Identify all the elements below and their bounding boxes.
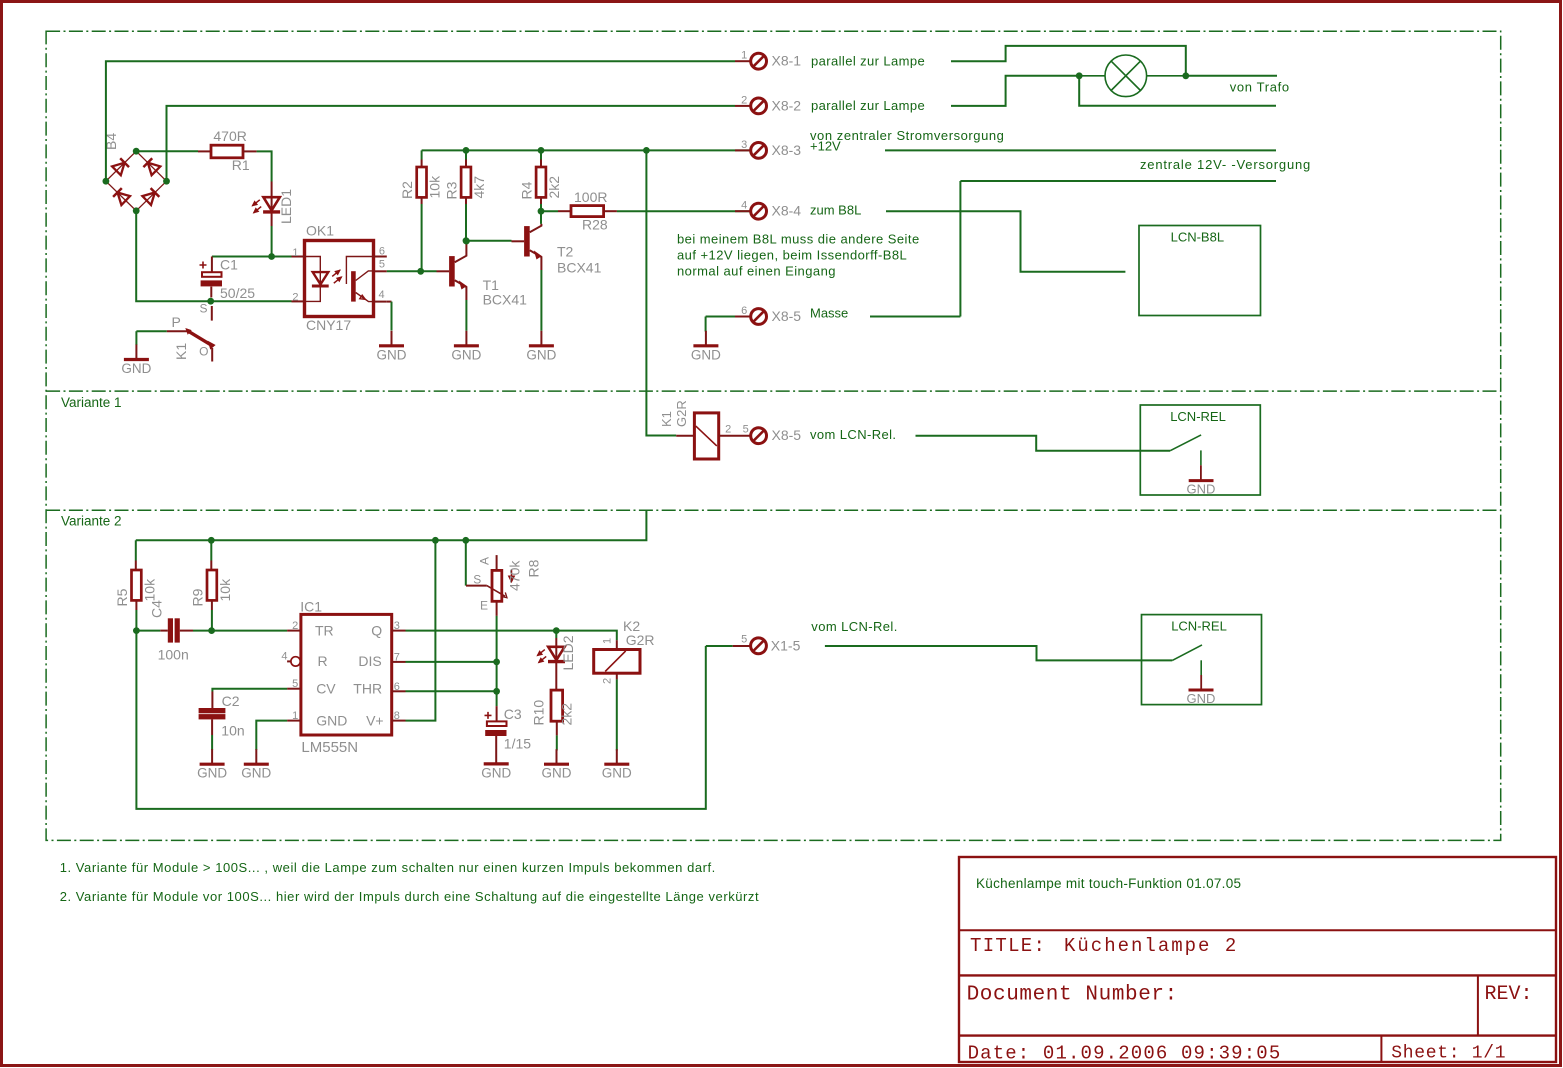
wire X8-1 to lamp right node: [951, 46, 1186, 76]
svg-text:2. Variante für Module vor 100: 2. Variante für Module vor 100S... hier …: [60, 889, 759, 904]
svg-text:LCN-B8L: LCN-B8L: [1171, 230, 1224, 245]
svg-text:GND: GND: [377, 347, 407, 362]
svg-text:LCN-REL: LCN-REL: [1170, 409, 1226, 424]
svg-text:2: 2: [292, 292, 298, 304]
resistor R1 470R: [198, 128, 257, 173]
wire T2 emitter to GND: [540, 270, 542, 331]
junction T1 collector node: [463, 238, 470, 245]
wire R4 top stub: [540, 150, 542, 159]
svg-text:R3: R3: [444, 181, 460, 199]
svg-text:6: 6: [394, 681, 400, 693]
svg-text:zentrale 12V- -Versorgung: zentrale 12V- -Versorgung: [1140, 157, 1311, 172]
svg-text:GND: GND: [542, 766, 572, 781]
svg-text:T2: T2: [557, 244, 574, 260]
svg-text:Q: Q: [371, 623, 382, 639]
wire bridge top to R1: [136, 150, 198, 152]
wire IC1 GND pin to ground: [256, 721, 287, 750]
wire node to R28: [541, 210, 558, 212]
title block frame: [959, 857, 1556, 1062]
svg-text:parallel zur Lampe: parallel zur Lampe: [811, 98, 925, 113]
wire rail to pot wiper: [465, 540, 467, 585]
svg-text:parallel zur Lampe: parallel zur Lampe: [811, 54, 925, 69]
wire K2 pin2 to GND: [616, 679, 618, 750]
pin pad X8-1: [735, 60, 751, 62]
svg-text:X8-5: X8-5: [772, 427, 802, 443]
box LCN-REL (Variante 1): [1140, 405, 1260, 497]
pin pad X1-5: [733, 645, 751, 647]
svg-text:GND: GND: [526, 347, 556, 362]
junction LED2 top: [553, 627, 560, 634]
junction R3 top: [463, 147, 470, 154]
svg-text:C4: C4: [149, 600, 165, 618]
svg-text:4k7: 4k7: [471, 176, 487, 199]
svg-text:5: 5: [741, 634, 747, 646]
svg-text:4: 4: [379, 289, 385, 301]
wire T1 emitter to GND: [465, 300, 467, 331]
junction R5/C4/bottom rail: [133, 627, 140, 634]
wire node to OK1 pin1: [272, 256, 292, 258]
svg-text:Document Number:: Document Number:: [967, 983, 1178, 1006]
pad X8-4 (connector): [751, 203, 767, 219]
ground GND (X8-5): [691, 331, 721, 363]
wire R5 bottom to node: [135, 610, 137, 631]
wire net X8-2 from bridge right corner to pad X8-2: [167, 106, 736, 181]
wire net +12V rail to pad X8-3: [422, 149, 751, 151]
pad X1-5 (connector): [751, 638, 767, 654]
svg-text:G2R: G2R: [626, 632, 655, 648]
svg-text:P: P: [172, 314, 181, 330]
pin R3 bottom: [465, 197, 467, 204]
junction bridge right (AC2): [163, 178, 170, 185]
svg-text:vom LCN-Rel.: vom LCN-Rel.: [811, 619, 897, 634]
svg-text:10k: 10k: [141, 578, 157, 602]
wire IC1 Q to LED2/relay K2: [406, 631, 617, 641]
wire LED1 cathode down to node: [271, 226, 273, 257]
IC U IC1 LM555N: [281, 599, 405, 757]
wire R3 bottom to T1 collector node: [465, 204, 467, 241]
junction DIS node: [493, 659, 500, 666]
svg-text:R5: R5: [114, 588, 130, 606]
LED LED1: [252, 182, 294, 227]
svg-text:R8: R8: [526, 559, 542, 577]
wire IC1 THR to node: [406, 690, 497, 692]
svg-text:GND: GND: [1187, 691, 1216, 706]
svg-text:GND: GND: [316, 713, 347, 729]
pin R9 top: [210, 561, 212, 571]
svg-text:CNY17: CNY17: [306, 317, 351, 333]
capacitor C3 electrolytic 1/15: [485, 706, 532, 764]
svg-text:R2: R2: [399, 181, 415, 199]
svg-text:Sheet: 1/1: Sheet: 1/1: [1391, 1044, 1506, 1064]
junction THR node: [493, 688, 500, 695]
svg-text:3: 3: [394, 620, 400, 632]
resistor R4 2k2: [519, 167, 563, 200]
optocoupler OK1 CNY17: [292, 223, 387, 334]
wire Masse to riser: [870, 316, 960, 318]
svg-text:10n: 10n: [221, 723, 244, 739]
svg-text:R1: R1: [232, 157, 250, 173]
wire 'zum B8L' to LCN-B8L: [886, 211, 1125, 272]
pad X8-3 (connector): [751, 143, 767, 159]
pin OK1 pin4 corner: [387, 301, 392, 303]
transistor T1 BCX41: [437, 244, 528, 308]
svg-text:CV: CV: [316, 681, 336, 697]
pin R5 top: [135, 561, 137, 571]
section divider line (Variante 2 top): [46, 509, 1501, 511]
svg-text:1: 1: [292, 247, 298, 259]
potentiometer R8 470k: [466, 540, 542, 616]
wire +12V to right: [885, 149, 1276, 151]
junction R4 bottom / R28 / T2 collector: [538, 208, 545, 215]
wire net X8-1 from bridge left corner to pad X8-1: [106, 61, 735, 181]
resistor R28 100R: [558, 189, 617, 232]
svg-text:2k2: 2k2: [559, 703, 575, 726]
junction lamp right: [1182, 72, 1189, 79]
wire bridge bottom to OK1 pin2: [136, 211, 291, 301]
svg-text:Date: 01.09.2006 09:39:05: Date: 01.09.2006 09:39:05: [968, 1043, 1282, 1065]
junction pot wiper riser: [462, 537, 469, 544]
svg-text:1: 1: [741, 50, 747, 62]
wire R4 bottom to node: [540, 204, 542, 211]
junction +12V riser to relay K1: [643, 147, 650, 154]
svg-text:2: 2: [741, 94, 747, 106]
ground GND (OK1 pin4): [377, 331, 407, 363]
wire lamp right node to Trafo: [1186, 75, 1277, 77]
svg-text:100n: 100n: [158, 647, 189, 663]
capacitor C2 10n: [199, 689, 288, 739]
svg-text:+12V: +12V: [810, 139, 841, 154]
svg-text:GND: GND: [602, 766, 632, 781]
svg-text:REV:: REV:: [1485, 983, 1533, 1006]
svg-text:5: 5: [743, 423, 749, 435]
svg-text:470R: 470R: [213, 128, 246, 144]
svg-text:K1: K1: [659, 411, 674, 427]
wire Variante2 bottom return rail: [136, 631, 705, 809]
svg-text:G2R: G2R: [674, 400, 689, 427]
svg-text:LED1: LED1: [278, 189, 294, 224]
wire R9 bottom to node: [211, 610, 213, 631]
wire net X8-4 from R28 to pad: [617, 210, 751, 212]
wire node to C4: [136, 630, 160, 632]
box LCN-B8L: [1139, 226, 1261, 316]
wire R2 bottom to base node: [421, 204, 423, 271]
svg-text:BCX41: BCX41: [557, 260, 602, 276]
ground GND (C2): [197, 749, 227, 781]
junction bridge left (AC1): [103, 178, 110, 185]
svg-text:8: 8: [394, 710, 400, 722]
junction R4 top: [538, 147, 545, 154]
svg-text:X8-2: X8-2: [772, 97, 802, 113]
svg-text:1/15: 1/15: [504, 736, 531, 752]
svg-text:GND: GND: [481, 765, 511, 780]
resistor R9 10k: [189, 570, 233, 607]
svg-text:DIS: DIS: [358, 653, 381, 669]
junction V+ riser: [432, 537, 439, 544]
pin R5 bottom: [135, 600, 137, 610]
svg-text:GND: GND: [1187, 482, 1216, 497]
svg-text:3: 3: [741, 139, 747, 151]
pin R3 top: [465, 160, 467, 168]
svg-text:S: S: [199, 302, 207, 316]
ground GND (T1): [451, 331, 481, 363]
junction R9 top: [208, 537, 215, 544]
svg-text:A: A: [478, 557, 492, 565]
pin R2 bottom: [421, 197, 423, 204]
wire X8-5 to GND corner: [706, 316, 735, 318]
svg-text:2: 2: [725, 423, 731, 435]
pin pad X8-3: [735, 149, 751, 151]
junction R9/C4/TR: [208, 627, 215, 634]
ground GND (T2): [526, 331, 556, 363]
wire node to T2 collector: [540, 211, 542, 224]
svg-text:Masse: Masse: [810, 306, 848, 321]
svg-text:R10: R10: [530, 700, 546, 726]
svg-text:GND: GND: [691, 347, 721, 362]
wire C2 to GND: [211, 735, 213, 750]
wire lamp left node to Trafo return: [1079, 76, 1276, 106]
wire node to T2 base: [466, 240, 512, 242]
svg-text:vom LCN-Rel.: vom LCN-Rel.: [810, 427, 896, 442]
lamp (circle with X): [1079, 55, 1186, 97]
ground GND inside LCN-REL 2: [1200, 675, 1202, 690]
wire node to LED2: [555, 631, 557, 638]
svg-text:C1: C1: [220, 257, 238, 273]
svg-text:Küchenlampe mit touch-Funktion: Küchenlampe mit touch-Funktion 01.07.05: [976, 876, 1241, 891]
wire 12V- supply line: [960, 180, 1276, 182]
resistor R5 10k: [114, 570, 157, 607]
svg-text:1. Variante für Module > 100S.: 1. Variante für Module > 100S... , weil …: [60, 860, 716, 875]
wire C4 to IC1 TR: [193, 630, 287, 632]
svg-text:6: 6: [379, 245, 385, 257]
svg-text:4: 4: [741, 200, 747, 212]
wire rail to R5: [135, 540, 137, 560]
svg-text:2: 2: [602, 678, 614, 684]
svg-text:auf +12V liegen, beim Issendor: auf +12V liegen, beim Issendorff-B8L: [677, 248, 907, 263]
junction R3/T1 collector/T2 base: [463, 237, 470, 244]
svg-text:4: 4: [281, 651, 287, 663]
pad X8-5 (relay K1 output): [751, 428, 767, 444]
wire switch pole to GND: [135, 331, 137, 345]
wire node to C1 top: [212, 256, 272, 258]
svg-text:6: 6: [741, 305, 747, 317]
svg-text:Variante 1: Variante 1: [61, 395, 122, 410]
switch P (pushbutton K1 contact S/O): [136, 302, 215, 362]
svg-text:C2: C2: [222, 693, 240, 709]
pad X8-1 (connector): [751, 53, 767, 69]
pin R2 top: [421, 160, 423, 168]
ground GND (switch P): [121, 345, 151, 377]
svg-text:IC1: IC1: [300, 599, 322, 615]
wire X1-5 left: [706, 645, 733, 647]
ground GND (K2): [602, 749, 632, 781]
junction C1 bottom / switch S: [207, 298, 214, 305]
wire 'vom LCN-Rel.' to LCN-REL (Variante 2): [825, 646, 1172, 660]
wire R10 to GND: [556, 735, 558, 750]
wire R2 top stub: [421, 150, 423, 159]
capacitor C4 100n: [136, 600, 193, 663]
svg-text:Küchenlampe 2: Küchenlampe 2: [1064, 935, 1238, 957]
svg-text:TR: TR: [315, 623, 334, 639]
relay K1 G2R (coil): [659, 400, 751, 459]
svg-text:R4: R4: [519, 181, 535, 199]
svg-text:7: 7: [394, 652, 400, 664]
wire X8-2 to lamp left node: [951, 76, 1079, 106]
ground GND inside LCN-REL: [1200, 465, 1202, 480]
svg-text:zum B8L: zum B8L: [810, 203, 861, 218]
relay K2 G2R (coil): [594, 618, 655, 684]
switch contact inside LCN-REL: [1170, 435, 1201, 451]
wire pot E down to C3: [496, 616, 498, 706]
junction bridge top (+): [133, 148, 140, 155]
svg-text:S: S: [473, 573, 481, 587]
svg-text:LCN-REL: LCN-REL: [1171, 619, 1227, 634]
wire IC1 V+ riser to rail: [406, 540, 436, 720]
wire 'vom LCN-Rel.' to LCN-REL switch: [916, 436, 1171, 451]
wire rail to R9: [210, 540, 212, 560]
svg-text:R: R: [318, 653, 328, 669]
transistor T2 BCX41: [512, 224, 602, 276]
resistor R10 2k2: [530, 690, 574, 735]
junction R2 bottom / base wire: [417, 268, 424, 275]
wire Variante2 +12V rail: [136, 510, 647, 540]
pin pad X8-2: [735, 105, 751, 107]
svg-text:O: O: [199, 345, 208, 359]
svg-text:R28: R28: [582, 217, 608, 233]
svg-text:OK1: OK1: [306, 223, 334, 239]
resistor R2 10k: [399, 167, 443, 199]
wire R3 top stub: [465, 150, 467, 159]
svg-text:K1: K1: [173, 343, 189, 360]
pin pad X8-5: [735, 316, 751, 318]
section divider line (Variante 1 top): [46, 390, 1501, 392]
switch contact inside LCN-REL: [1172, 645, 1202, 661]
svg-text:V+: V+: [366, 713, 384, 729]
svg-text:normal auf einen Eingang: normal auf einen Eingang: [677, 264, 836, 279]
ground GND (R10): [542, 749, 572, 781]
svg-text:100R: 100R: [574, 189, 607, 205]
box LCN-REL (Variante 2): [1142, 615, 1262, 706]
svg-text:GND: GND: [451, 347, 481, 362]
pin pad X8-4: [735, 210, 751, 212]
wire +12V riser down to relay K1: [646, 150, 676, 435]
bridge rectifier B4: [103, 133, 167, 211]
svg-text:Variante 2: Variante 2: [61, 514, 122, 529]
svg-text:10k: 10k: [427, 175, 443, 199]
svg-text:TITLE:: TITLE:: [970, 935, 1046, 957]
svg-text:X8-1: X8-1: [772, 53, 802, 69]
svg-text:5: 5: [379, 259, 385, 271]
svg-text:von Trafo: von Trafo: [1230, 80, 1290, 95]
svg-text:E: E: [480, 599, 488, 613]
wire OK1 pin5 to T1 base: [387, 270, 437, 272]
svg-text:bei meinem B8L muss die andere: bei meinem B8L muss die andere Seite: [677, 232, 920, 247]
svg-text:X8-5: X8-5: [772, 308, 802, 324]
svg-text:GND: GND: [197, 766, 227, 781]
svg-text:GND: GND: [241, 766, 271, 781]
junction LED1/C1/OK1 pin1: [268, 253, 275, 260]
wire GND to switch P pole: [136, 330, 166, 332]
svg-text:10k: 10k: [217, 578, 233, 602]
wire X8-5 GND riser: [705, 317, 707, 332]
wire IC1 DIS to node: [406, 661, 497, 663]
pad X8-5 (connector): [751, 309, 767, 325]
svg-text:GND: GND: [121, 361, 151, 376]
svg-text:X1-5: X1-5: [771, 637, 801, 653]
svg-text:1: 1: [292, 710, 298, 722]
pin R4 top: [540, 160, 542, 168]
section border (dash-dot outer rectangle): [46, 31, 1501, 840]
wire CV to C2: [212, 689, 287, 692]
svg-text:50/25: 50/25: [220, 285, 255, 301]
svg-text:R9: R9: [189, 588, 205, 606]
wire 12V- riser to Masse: [959, 181, 961, 317]
ground GND (IC1): [241, 749, 271, 781]
wire R1 to LED1: [257, 151, 272, 181]
junction bridge bottom (-): [133, 207, 140, 214]
svg-text:2k2: 2k2: [546, 176, 562, 199]
capacitor C1 electrolytic 50/25: [200, 257, 256, 302]
ground GND (C3): [481, 764, 511, 781]
svg-text:1: 1: [602, 638, 614, 644]
junction lamp left: [1076, 72, 1083, 79]
wire OK1 pin4 to GND: [391, 302, 393, 331]
pin R4 bottom: [540, 197, 542, 204]
resistor R3 4k7: [444, 167, 488, 200]
svg-text:LM555N: LM555N: [301, 739, 358, 756]
svg-text:X8-3: X8-3: [772, 142, 802, 158]
pad X8-2 (connector): [751, 98, 767, 114]
svg-text:THR: THR: [353, 681, 382, 697]
pin R9 bottom: [211, 600, 213, 610]
svg-text:C3: C3: [504, 706, 522, 722]
svg-text:5: 5: [292, 678, 298, 690]
svg-text:LED2: LED2: [560, 635, 576, 670]
svg-text:BCX41: BCX41: [483, 292, 528, 308]
svg-text:470k: 470k: [507, 560, 523, 591]
svg-text:X8-4: X8-4: [772, 203, 802, 219]
LED LED2: [537, 631, 576, 691]
svg-text:2: 2: [292, 620, 298, 632]
